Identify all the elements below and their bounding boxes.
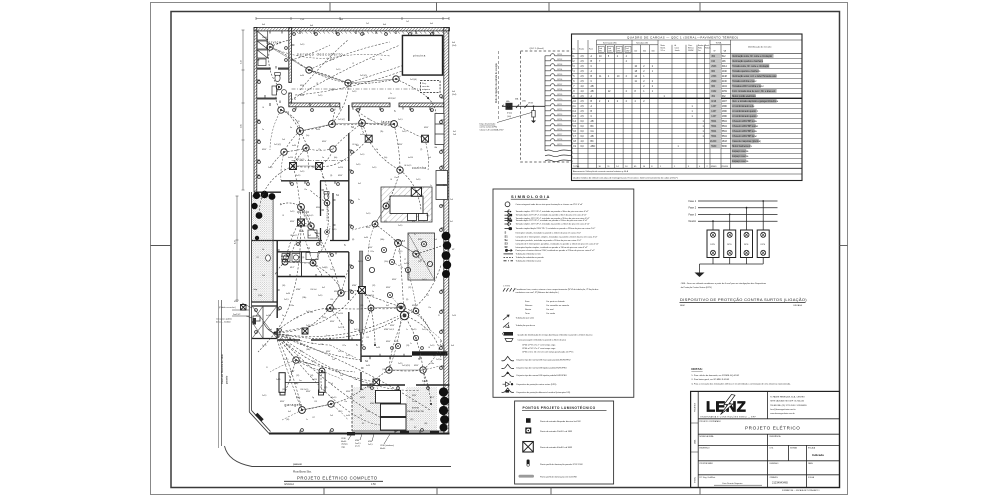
svg-text:CFT12: CFT12 [557, 109, 562, 111]
svg-text:#6: #6 [390, 179, 392, 181]
svg-text:2x2,5: 2x2,5 [352, 91, 356, 93]
svg-text:#6 2x2,5: #6 2x2,5 [404, 165, 411, 167]
wall: garden strip [252, 196, 278, 302]
svg-text:1467: 1467 [711, 106, 717, 108]
proprietario row [700, 462, 814, 465]
svg-text:Tomada simples 127V 2P+T, inst: Tomada simples 127V 2P+T, instalada na p… [516, 210, 589, 213]
svg-text:quarto: quarto [325, 307, 338, 311]
svg-text:2x10: 2x10 [452, 315, 456, 317]
svg-text:Aterramento: Utilização de: Aterramento: Utilização de corrente nomi… [573, 170, 629, 173]
riser circuit labels [557, 54, 562, 146]
svg-text:NORMA: NORMA [790, 446, 797, 449]
svg-text:DPS: DPS [710, 244, 715, 246]
svg-text:PROJETO ELÉTRICO: PROJETO ELÉTRICO [745, 425, 800, 431]
svg-text:2- Para baixa geral, ver NT-MN: 2- Para baixa geral, ver NT-MNL R-05/03 [691, 378, 730, 381]
svg-text:4x2: 4x2 [356, 145, 359, 147]
svg-text:5504: 5504 [722, 131, 728, 133]
svg-text:2x2,5: 2x2,5 [416, 179, 420, 181]
svg-text:(12): (12) [282, 389, 286, 391]
svg-text:4,20: 4,20 [235, 240, 237, 244]
svg-text:1467: 1467 [711, 116, 717, 118]
svg-text:Dispositivo de proteção contra: Dispositivo de proteção contra surtos (D… [517, 383, 557, 386]
svg-text:CP60 = PVC 4"x 4" com tampa: CP60 = PVC 4"x 4" com tampa cega [522, 347, 556, 350]
svg-text:2960: 2960 [711, 81, 717, 83]
svg-text:1c: 1c [306, 419, 308, 421]
svg-text:piscina: piscina [413, 54, 426, 58]
svg-text:Motor portão eletrônico: Motor portão eletrônico [732, 95, 756, 98]
svg-text:Motor banheira 2cv: Motor banheira 2cv [732, 145, 753, 148]
svg-text:Tubulação embutida na parede: Tubulação embutida na parede [516, 256, 545, 259]
svg-text:Ø3/4": Ø3/4" [326, 351, 331, 353]
svg-text:2x1,5: 2x1,5 [276, 379, 280, 381]
svg-text:Ø3/4": Ø3/4" [386, 287, 391, 289]
svg-text:Tomada simples 127V 2P+T, inst: Tomada simples 127V 2P+T, instalada na p… [516, 223, 590, 226]
svg-text:Indicada: Indicada [812, 453, 824, 457]
svg-text:Dispositivo de proteção difere: Dispositivo de proteção diferencial resi… [517, 391, 571, 394]
svg-text:1c: 1c [358, 199, 360, 201]
svg-text:Ø3/4": Ø3/4" [322, 141, 327, 143]
svg-text:#10 2x4: #10 2x4 [310, 289, 316, 291]
svg-text:3x2,5: 3x2,5 [296, 175, 300, 177]
svg-text:5500W: 5500W [688, 50, 694, 52]
svg-text:Ilum. e tomada depósito e gara: Ilum. e tomada depósito e garagem/Interf… [732, 100, 779, 103]
svg-text:2x4: 2x4 [332, 359, 335, 361]
dimension line top [256, 17, 449, 20]
svg-text:(12): (12) [384, 221, 388, 223]
svg-text:(2x4): (2x4) [452, 94, 457, 96]
table column grid [578, 40, 731, 168]
svg-text:#11: #11 [310, 312, 313, 314]
svg-text:S2: S2 [360, 389, 362, 391]
svg-text:2130: 2130 [722, 81, 728, 83]
svg-text:1c: 1c [326, 335, 328, 337]
svg-text:Ø3/4": Ø3/4" [346, 391, 351, 393]
svg-text:Ø3/4": Ø3/4" [330, 321, 335, 323]
svg-text:#7: #7 [404, 259, 406, 261]
svg-text:QUADRO DE CARGAS — QDC 1: QUADRO DE CARGAS — QDC 1 (GERAL—PAVIMENT… [627, 35, 739, 40]
svg-text:#6: #6 [428, 347, 430, 349]
svg-text:1- Para cálculo de demanda, ve: 1- Para cálculo de demanda, ver NT-MNL E… [691, 374, 740, 377]
svg-text:1843: 1843 [722, 141, 728, 143]
wall: left property line double [249, 192, 251, 412]
svg-text:R. PADRE HENRIQUE, 34 A - CENT: R. PADRE HENRIQUE, 34 A - CENTRO [770, 395, 805, 398]
svg-text:Tomadas (W): Tomadas (W) [636, 43, 648, 45]
svg-text:DISJ: DISJ [522, 101, 526, 103]
svg-text:AB: AB [591, 120, 595, 123]
third round tiny texts [256, 121, 437, 413]
svg-text:2x2,5: 2x2,5 [394, 341, 398, 343]
svg-text:máquina: máquina [422, 89, 431, 91]
svg-text:CP40: CP40 [341, 438, 346, 440]
svg-text:1c: 1c [430, 185, 432, 187]
svg-text:Fase 3: Fase 3 [689, 213, 697, 216]
bath2 fixtures [308, 192, 329, 239]
wall: main horizontal wall between patio and lazer [289, 103, 444, 107]
wall: quarto bottom horizontal [252, 241, 349, 252]
svg-text:#17: #17 [312, 417, 315, 419]
svg-text:ESCALA: ESCALA [794, 304, 803, 307]
svg-text:40x40: 40x40 [380, 448, 385, 450]
svg-text:CFT05: CFT05 [557, 74, 562, 76]
svg-text:(12a): (12a) [384, 261, 389, 263]
svg-text:Cor vermelha ou amarela: Cor vermelha ou amarela [546, 304, 570, 307]
svg-text:Disjuntor tipo din norma D: Disjuntor tipo din norma DIN tripolar pa… [517, 374, 568, 377]
svg-text:DPS: DPS [727, 244, 732, 246]
svg-text:2x1,5: 2x1,5 [430, 345, 434, 347]
svg-text:1/2 cv: 1/2 cv [661, 50, 666, 52]
svg-text:CP40 (interfone): CP40 (interfone) [380, 444, 394, 447]
svg-text:1c: 1c [312, 343, 314, 345]
svg-text:Ø3/4": Ø3/4" [412, 305, 417, 307]
svg-text:#1a: #1a [412, 221, 415, 223]
svg-text:Ø3/4": Ø3/4" [306, 391, 311, 393]
svg-text:2x2,5: 2x2,5 [284, 299, 289, 301]
svg-text:2x4: 2x4 [340, 375, 343, 377]
svg-text:CFT18: CFT18 [557, 139, 562, 141]
svg-text:casa de: casa de [422, 86, 430, 88]
svg-text:Ø3/4": Ø3/4" [234, 301, 239, 303]
svg-text:Ø3/4": Ø3/4" [296, 289, 301, 291]
svg-text:2a: 2a [262, 129, 264, 131]
svg-text:4x4: 4x4 [430, 23, 433, 25]
svg-text:2x4: 2x4 [330, 383, 333, 385]
pontos row 2 20x20 [525, 428, 573, 434]
svg-text:(10): (10) [282, 285, 286, 287]
svg-text:(18b): (18b) [294, 383, 299, 385]
DPS unit 4 [757, 230, 769, 258]
svg-text:Condutores fase, neutro, retor: Condutores fase, neutro, retorno e terra… [516, 288, 599, 291]
plan title [284, 476, 383, 487]
svg-text:(2+2): (2+2) [355, 446, 360, 448]
svg-text:dep.: dep. [254, 289, 259, 291]
piscina [403, 36, 443, 76]
extra conduit arcs for density [258, 40, 441, 410]
svg-text:Neutro: Neutro [525, 308, 532, 311]
svg-text:Chuveiro 220V BH lazer: Chuveiro 220V BH lazer [732, 135, 757, 138]
svg-text:(12): (12) [372, 285, 376, 287]
svg-text:2363: 2363 [711, 76, 717, 78]
svg-text:4x2: 4x2 [372, 59, 375, 61]
svg-text:Ø3/4": Ø3/4" [412, 395, 417, 397]
casa de maquina redraw [421, 81, 441, 93]
svg-text:h=210: h=210 [360, 397, 365, 399]
svg-text:CFT09: CFT09 [557, 94, 562, 96]
svg-text:2,85: 2,85 [241, 124, 243, 128]
svg-text:(20a): (20a) [316, 233, 321, 235]
svg-text:(9): (9) [406, 299, 409, 301]
svg-text:W: W [714, 51, 716, 53]
svg-text:2x2,5: 2x2,5 [318, 95, 322, 97]
svg-text:4x4: 4x4 [383, 24, 386, 26]
svg-text:Ø3/4": Ø3/4" [334, 291, 339, 293]
svg-text:ESCALA: ESCALA [808, 446, 816, 449]
dimension line left side [236, 30, 245, 300]
svg-text:4x2: 4x2 [322, 287, 325, 289]
solid leader wires entry [232, 310, 275, 333]
svg-text:ENDEREÇO: ENDEREÇO [700, 447, 711, 449]
svg-text:Tubulação embutida no piso: Tubulação embutida no piso [516, 260, 543, 263]
svg-text:TOTAL: TOTAL [716, 42, 723, 45]
svg-text:C T R N: C T R N [503, 286, 510, 288]
svg-text:2x2: 2x2 [366, 23, 369, 25]
wall: top exterior wall [254, 28, 450, 31]
title block frame [691, 391, 840, 487]
rotated feeder text [495, 51, 498, 120]
ground symbol [695, 273, 705, 278]
trees bottom-right [439, 387, 449, 431]
svg-text:h=30: h=30 [286, 293, 290, 295]
svg-text:S3: S3 [505, 241, 509, 245]
bathroom fixtures top [272, 73, 286, 96]
ceiling X-boxes [241, 135, 429, 334]
svg-text:DR 63: DR 63 [528, 103, 533, 105]
svg-text:RESIDÊNCIA: RESIDÊNCIA [770, 435, 782, 438]
fold marks sides [151, 245, 848, 247]
svg-text:1c: 1c [410, 343, 412, 345]
svg-text:S2: S2 [362, 423, 364, 425]
svg-text:serviço: serviço [266, 41, 282, 45]
svg-text:#11: #11 [426, 295, 429, 297]
svg-text:Disjuntor tipo din norma D: Disjuntor tipo din norma DIN bipolar pad… [517, 366, 568, 369]
svg-text:2x4: 2x4 [330, 415, 333, 417]
svg-text:Tubulação que desce: Tubulação que desce [516, 324, 536, 327]
svg-text:h=30: h=30 [300, 231, 304, 233]
room labels [254, 41, 429, 414]
pontos title [522, 405, 607, 410]
wall: area de servico bottom + verticals [277, 241, 345, 339]
svg-text:5504: 5504 [711, 121, 717, 123]
simbologia DIN curve rows [502, 356, 571, 377]
svg-text:1380: 1380 [722, 106, 728, 108]
wall: right exterior wall [444, 28, 449, 434]
wall: estar/quarto horizontal [257, 181, 349, 192]
svg-text:#10: #10 [330, 299, 333, 301]
svg-text:3,10: 3,10 [241, 60, 243, 64]
fold marks top [330, 3, 700, 12]
svg-text:(2x4): (2x4) [452, 45, 457, 47]
svg-text:(19a): (19a) [296, 397, 301, 399]
svg-text:21234943465: 21234943465 [772, 481, 788, 485]
svg-text:(12): (12) [312, 167, 316, 169]
svg-text:(15a): (15a) [322, 317, 327, 319]
main breaker symbols [515, 98, 533, 109]
svg-text:med.: med. [268, 329, 273, 331]
table row grid + grey W column [572, 53, 803, 174]
wall: grey section wall right of quarto2 [359, 251, 362, 333]
svg-text:UTIL: UTIL [770, 447, 774, 449]
svg-text:AB: AB [591, 85, 595, 88]
svg-text:#12 2x2,5: #12 2x2,5 [296, 159, 304, 161]
QDC dashed enclosure [521, 51, 573, 162]
svg-text:2x6: 2x6 [450, 199, 453, 201]
svg-text:2x1,5: 2x1,5 [336, 69, 340, 71]
svg-text:Espaço reserva: Espaço reserva [732, 155, 749, 158]
svg-text:1467: 1467 [711, 111, 717, 113]
extra symbols jantar/hall [365, 241, 432, 348]
svg-text:(21a): (21a) [258, 295, 263, 297]
svg-text:(12): (12) [408, 287, 412, 289]
svg-text:#15: #15 [366, 337, 369, 339]
svg-text:(18): (18) [424, 423, 428, 425]
svg-text:1,20: 1,20 [296, 121, 300, 123]
svg-text:CFT19: CFT19 [557, 144, 562, 146]
formato note [782, 489, 820, 492]
wall: chamfered corner bottom-left [249, 411, 270, 434]
svg-text:CFT04: CFT04 [557, 69, 562, 71]
svg-text:5504: 5504 [711, 136, 717, 138]
svg-text:PROPRIETÁRIO: PROPRIETÁRIO [700, 462, 714, 465]
svg-text:1380: 1380 [722, 116, 728, 118]
QDC label [530, 47, 544, 50]
svg-text:CA: CA [591, 130, 595, 133]
svg-text:h=30: h=30 [376, 347, 380, 349]
dashed covered-area boundary line [292, 89, 441, 161]
wall: quarto2 bottom [277, 339, 361, 341]
svg-text:NOME DA OBRA: NOME DA OBRA [700, 435, 715, 438]
dashed conduit arcs [259, 47, 441, 420]
garage posts [279, 373, 325, 393]
svg-text:3014: 3014 [722, 66, 728, 68]
jantar garden planter [408, 233, 435, 280]
svg-text:h=30: h=30 [300, 75, 304, 77]
garage ceiling boxes [280, 379, 380, 395]
svg-text:DESENHO: DESENHO [770, 463, 779, 465]
svg-text:4x2: 4x2 [288, 411, 291, 413]
projeto eletrico row [700, 420, 801, 431]
svg-text:2x2,5: 2x2,5 [262, 345, 266, 347]
svg-text:2x1,5(2): 2x1,5(2) [274, 144, 281, 146]
riser branch circuits with breakers [545, 54, 572, 162]
svg-text:#1a: #1a [344, 401, 347, 403]
svg-text:de Proteção Contra Surtos (DPS: de Proteção Contra Surtos (DPS) [681, 286, 712, 289]
svg-text:2x2,5: 2x2,5 [330, 269, 334, 271]
svg-text:18W: 18W [617, 50, 621, 52]
svg-text:1c: 1c [406, 329, 408, 331]
svg-text:2g: 2g [312, 397, 314, 399]
svg-text:Chuveiro 220V BH suíte: Chuveiro 220V BH suíte [732, 130, 757, 133]
svg-text:h=30: h=30 [366, 365, 370, 367]
piscina redraw on top [403, 36, 443, 76]
svg-text:CONTINUA QUADRO: CONTINUA QUADRO [414, 352, 444, 356]
svg-text:Ø3/4": Ø3/4" [386, 341, 391, 343]
extra dots2 [367, 243, 425, 347]
pontos box frame [515, 401, 614, 484]
svg-text:5930: 5930 [711, 146, 717, 148]
simbologia conductor colours [525, 300, 570, 315]
svg-text:2x1,5: 2x1,5 [358, 261, 362, 263]
svg-text:2x1,5(6): 2x1,5(6) [410, 79, 417, 81]
svg-text:Ø3/4": Ø3/4" [300, 85, 305, 87]
svg-text:(12): (12) [324, 387, 328, 389]
svg-text:h=30: h=30 [292, 145, 296, 147]
svg-text:CFT17: CFT17 [557, 134, 562, 136]
tiny annotation texts scattered [262, 24, 457, 421]
svg-text:1x2: 1x2 [406, 21, 409, 23]
svg-text:www.lenzengenharia.com.br: www.lenzengenharia.com.br [770, 413, 795, 415]
svg-text:FORMATO A1 — ESCALA DE PLOTA: FORMATO A1 — ESCALA DE PLOTAGEM 1:1 [782, 489, 820, 492]
svg-text:#13: #13 [320, 344, 323, 346]
svg-text:2x1,5: 2x1,5 [412, 401, 416, 403]
svg-text:Janela: Janela [675, 50, 680, 52]
svg-text:Rua Luiz Bezerra de Melo: Rua Luiz Bezerra de Melo [220, 353, 224, 384]
small socket circles along walls [255, 33, 443, 432]
svg-text:2448: 2448 [722, 76, 728, 78]
svg-text:#7a: #7a [318, 149, 321, 151]
svg-text:Ø3/4": Ø3/4" [370, 403, 375, 405]
svg-text:1,5x1: 1,5x1 [300, 19, 304, 21]
svg-text:(12): (12) [360, 305, 364, 307]
svg-text:211099: 211099 [721, 166, 729, 168]
svg-text:Proj.: Proj. [422, 82, 427, 85]
trees garden strip [251, 191, 275, 241]
svg-text:TELEFONE: (31) 3771-7045 / 3.2: TELEFONE: (31) 3771-7045 / 3.29094055 [770, 405, 806, 407]
svg-text:CFT10: CFT10 [557, 99, 562, 101]
svg-text:Interruptor simples, instalado: Interruptor simples, instalado na parede… [516, 232, 582, 235]
svg-text:2x6: 2x6 [453, 134, 456, 136]
svg-text:PONTOS PROJETO LUMINOTÉCNICO: PONTOS PROJETO LUMINOTÉCNICO [523, 405, 596, 410]
simbologia conductors row [503, 286, 598, 295]
svg-text:Ø3/4": Ø3/4" [390, 325, 395, 327]
svg-text:2x1,5: 2x1,5 [338, 327, 342, 329]
fold marks bottom [324, 488, 700, 495]
paving stipple bottom right [353, 388, 438, 431]
svg-text:2x2,5: 2x2,5 [368, 444, 373, 446]
svg-text:h=110: h=110 [338, 313, 343, 315]
svg-text:CFT14: CFT14 [557, 119, 562, 121]
svg-text:h=110: h=110 [408, 157, 413, 159]
svg-text:h=110: h=110 [266, 315, 271, 317]
svg-text:Ø3/4": Ø3/4" [424, 127, 429, 129]
svg-text:2cv: 2cv [698, 50, 701, 52]
svg-text:2x2,5: 2x2,5 [332, 229, 336, 231]
svg-text:CFT11: CFT11 [557, 104, 562, 106]
svg-text:garagem: garagem [285, 403, 303, 407]
simbologia title [511, 194, 551, 199]
svg-text:Circ.: Circ. [572, 49, 576, 51]
svg-text:#11a: #11a [370, 251, 374, 253]
svg-text:SF: SF [505, 245, 509, 249]
svg-text:(12): (12) [312, 361, 316, 363]
extra wall ticks / sockets [257, 31, 434, 388]
svg-text:(1x5): (1x5) [507, 116, 511, 118]
svg-text:Tomada dupla 127V 2P+T, instal: Tomada dupla 127V 2P+T, instalada na par… [516, 214, 587, 217]
svg-text:h=30: h=30 [316, 129, 320, 131]
svg-text:2x1,5: 2x1,5 [366, 213, 370, 215]
address block [770, 395, 806, 415]
svg-text:kWh: kWh [506, 101, 510, 103]
svg-text:3e: 3e [282, 315, 284, 317]
svg-text:Tubulação que sobe: Tubulação que sobe [516, 317, 535, 320]
svg-text:2b: 2b [376, 149, 378, 151]
svg-text:S2: S2 [414, 427, 416, 429]
svg-text:Caixa octogonal onde dia no te: Caixa octogonal onde dia no teto para il… [516, 203, 583, 206]
S switch letters [280, 98, 434, 363]
svg-text:Cor verde: Cor verde [546, 312, 556, 315]
svg-text:#14a: #14a [290, 305, 294, 307]
svg-text:Disjuntor tipo din norma D: Disjuntor tipo din norma DIN marcação pa… [517, 359, 571, 362]
svg-text:Quadro metálico de embutir: Quadro metálico de embutir com placa de … [573, 176, 678, 179]
DPS earth bus [700, 258, 764, 273]
svg-text:SETE LAGOAS / MG CEP: 35.70: SETE LAGOAS / MG CEP: 35.700-035 [770, 400, 804, 403]
pontos row 1 dicroica [526, 418, 581, 423]
hatch marks along top wall interior [292, 31, 448, 33]
svg-text:3- Para a execução das instala: 3- Para a execução das instalações elétr… [691, 382, 791, 385]
svg-text:(15): (15) [410, 419, 414, 421]
svg-text:h=210: h=210 [404, 263, 409, 265]
wall: left exterior wall (upper) [254, 28, 257, 193]
svg-text:ENGENHARIA E CONSTRUÇÕES EIREL: ENGENHARIA E CONSTRUÇÕES EIRELI — EPP [701, 415, 757, 418]
svg-text:4P/2,5LP: 4P/2,5LP [388, 98, 397, 100]
